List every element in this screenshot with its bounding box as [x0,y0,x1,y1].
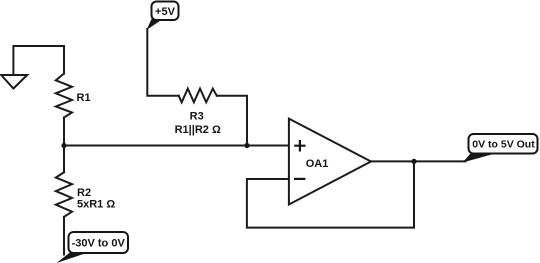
svg-text:-30V to 0V: -30V to 0V [72,238,126,250]
op-amp - input symbol [294,178,305,180]
resistor R2 [56,172,72,217]
wire R3 right to node A [217,96,247,146]
svg-text:R1: R1 [77,92,91,104]
svg-text:OA1: OA1 [306,158,329,170]
svg-text:R3: R3 [190,111,204,123]
resistor R3 [179,89,217,103]
op-amp U1 body [289,119,371,205]
wire R2 bottom to -30V input [63,217,65,255]
wire op-amp - input feedback loop [247,161,414,227]
node A junction dot right [244,143,249,148]
wire R1 bottom to node A [63,118,65,146]
output node junction dot [411,159,416,164]
svg-text:+5V: +5V [155,6,176,18]
net label +5V tail [147,19,163,30]
resistor R1 [56,74,72,118]
wire op-amp output [371,160,466,162]
op-amp + input symbol [294,140,305,152]
node A junction dot left [61,143,66,148]
svg-text:5xR1 Ω: 5xR1 Ω [77,199,115,211]
wire +5V to R3 left [147,29,178,96]
wire node A to op-amp + input [64,145,289,147]
ground [1,75,27,89]
wire ground to R1 top [13,46,64,75]
net label 0V to 5V Out tail [463,153,498,163]
svg-text:0V to 5V Out: 0V to 5V Out [472,139,535,151]
net label 0V to 5V Out box [469,134,538,154]
net label -30V to 0V box [69,232,129,253]
net label -30V to 0V tail [57,252,89,263]
wire node A to R2 top [63,146,65,173]
svg-text:R2: R2 [77,187,91,199]
svg-text:R1||R2 Ω: R1||R2 Ω [175,124,221,136]
net label +5V box [152,2,179,21]
